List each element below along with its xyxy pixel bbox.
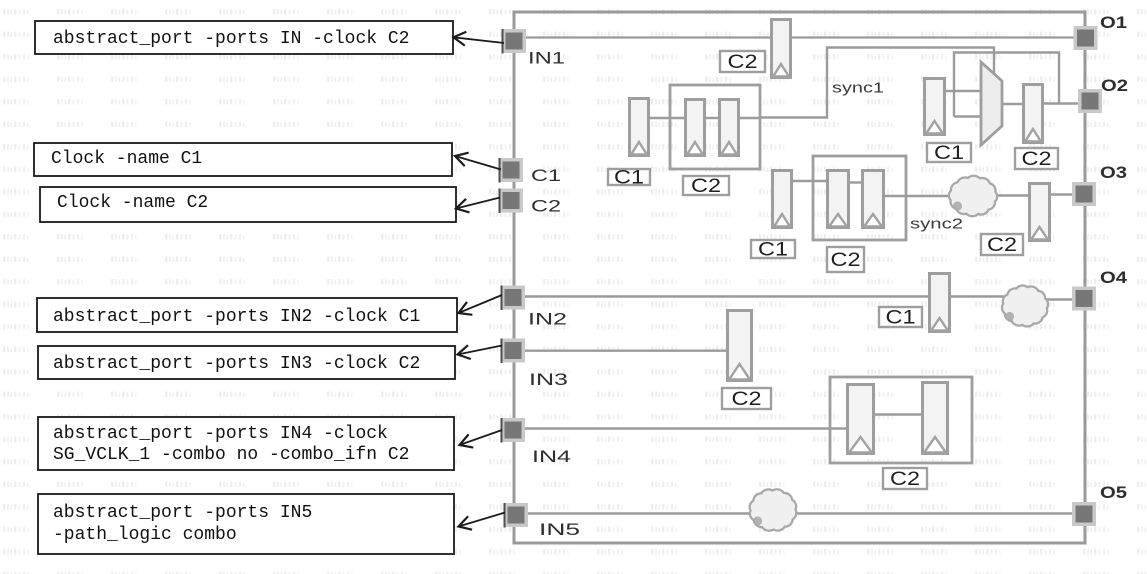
arrow to annotation box 5 <box>458 345 503 359</box>
annotation box 7: abstract_port IN5 <box>38 494 454 554</box>
wire FF C2 to port O3 <box>1051 193 1076 195</box>
svg-text:O3: O3 <box>1100 164 1127 182</box>
svg-text:O1: O1 <box>1100 14 1127 32</box>
svg-text:C1: C1 <box>531 166 561 185</box>
arrow to annotation box 2 <box>455 153 501 170</box>
svg-text:abstract_port -ports IN4 -cloc: abstract_port -ports IN4 -clock <box>53 424 388 444</box>
IN4 double flip-flop group box <box>830 377 972 463</box>
svg-text:IN1: IN1 <box>528 49 565 68</box>
svg-text:C2: C2 <box>1022 149 1052 170</box>
clock domain label C1 (IN2 FF) <box>879 307 922 329</box>
svg-text:IN4: IN4 <box>532 447 571 466</box>
clock domain label C2 (top FF) <box>720 51 765 73</box>
svg-text:O5: O5 <box>1100 484 1127 502</box>
port IN3 <box>501 339 526 364</box>
annotation box 1: abstract_port IN <box>35 21 453 54</box>
annotation box 2: Clock C1 <box>34 143 452 176</box>
port C2 <box>499 189 524 214</box>
port IN5 <box>504 503 529 528</box>
port O5 <box>1072 502 1096 526</box>
top-level block outline <box>514 12 1085 543</box>
svg-text:C2: C2 <box>691 176 721 197</box>
clock domain label C1 (mux input FF) <box>927 143 971 164</box>
wire mux output to FF C2 <box>1002 103 1022 105</box>
wire between sync2 flip-flops <box>850 181 861 183</box>
port O1 <box>1074 26 1098 50</box>
clock domain label C2 (mux output FF) <box>1015 148 1058 170</box>
IN4 box flip-flop 1 <box>848 385 874 454</box>
svg-text:Clock -name C2: Clock -name C2 <box>57 193 208 213</box>
svg-text:C1: C1 <box>758 240 788 261</box>
port IN4 <box>501 418 526 443</box>
annotation box 6: abstract_port IN4 <box>38 417 454 470</box>
wire sync1 output to mux top input <box>760 48 994 118</box>
svg-text:C2: C2 <box>987 235 1017 256</box>
clock domain label C2 (O3 FF) <box>981 234 1023 256</box>
svg-text:C1: C1 <box>886 308 916 329</box>
wire FF C2 to port O2 <box>1044 102 1080 104</box>
flip-flop C2 before O3 <box>1030 184 1050 241</box>
svg-text:abstract_port -ports IN5: abstract_port -ports IN5 <box>53 503 312 523</box>
annotation box 3: Clock C2 <box>40 187 456 222</box>
wire IN1 to O1 <box>526 36 1076 38</box>
sync1 flip-flop 1 <box>686 100 705 156</box>
svg-text:abstract_port -ports IN3 -cloc: abstract_port -ports IN3 -clock C2 <box>53 354 420 374</box>
wire IN3 to FF C2 <box>525 350 727 352</box>
wire between IN4 box flip-flops <box>875 413 921 415</box>
cloud combinational logic on sync2-O3 row <box>949 176 997 216</box>
svg-text:abstract_port -ports IN -clock: abstract_port -ports IN -clock C2 <box>53 29 409 49</box>
arrow to annotation box 3 <box>456 198 500 213</box>
port IN2 <box>501 286 526 311</box>
annotation box 4: abstract_port IN2 <box>37 298 457 332</box>
wire cloud to port O4 <box>1043 298 1076 300</box>
port IN1 <box>502 29 527 54</box>
sync1 group box <box>670 85 760 169</box>
svg-text:SG_VCLK_1 -combo no -combo_ifn: SG_VCLK_1 -combo no -combo_ifn C2 <box>53 445 409 465</box>
svg-text:C2: C2 <box>531 197 561 216</box>
wire mux feedback loop <box>954 53 1059 117</box>
svg-text:Clock -name C1: Clock -name C1 <box>51 149 202 169</box>
flip-flop C1 feeding sync2 <box>773 171 792 228</box>
arrow to annotation box 6 <box>460 430 503 448</box>
sync2 group box <box>813 156 906 240</box>
wire IN4 to double flip-flop box <box>525 427 847 429</box>
svg-text:C1: C1 <box>614 168 644 189</box>
svg-text:C2: C2 <box>728 52 758 73</box>
svg-text:IN2: IN2 <box>528 310 567 329</box>
svg-text:abstract_port -ports IN2 -cloc: abstract_port -ports IN2 -clock C1 <box>53 307 420 327</box>
clock domain label C2 (sync1 box) <box>683 176 729 197</box>
cloud combinational logic on IN5-O5 row <box>750 489 797 530</box>
arrow to annotation box 1 <box>454 32 505 46</box>
svg-text:IN5: IN5 <box>539 520 580 539</box>
svg-text:O4: O4 <box>1100 269 1128 287</box>
arrow to annotation box 4 <box>459 295 503 315</box>
clock domain label C1 (sync1 input FF) <box>608 168 650 189</box>
mux <box>981 62 1002 145</box>
svg-text:-path_logic combo: -path_logic combo <box>53 525 237 545</box>
port O4 <box>1072 287 1096 311</box>
wire feedback to mux input 2 <box>954 115 981 117</box>
svg-text:C2: C2 <box>831 250 861 271</box>
svg-text:sync1: sync1 <box>832 80 884 97</box>
port O3 <box>1072 182 1096 206</box>
wire cloud to port O5 <box>791 512 1076 514</box>
flip-flop C1 feeding mux <box>925 79 945 135</box>
wire between sync1 flip-flops <box>706 117 718 119</box>
port O2 <box>1078 89 1102 113</box>
flip-flop C2 on IN1-O1 wire <box>772 20 791 78</box>
clock domain label C2 (IN4 box) <box>883 468 927 490</box>
wire cloud to FF C2 on O3 row <box>995 194 1028 196</box>
cloud combinational logic on IN2-O4 row <box>1002 286 1048 327</box>
flip-flop C2 after mux <box>1024 85 1043 143</box>
flip-flop C2 on IN3 row <box>728 311 752 381</box>
wire IN2 to FF C1 <box>525 295 928 297</box>
svg-text:IN3: IN3 <box>529 370 568 389</box>
annotation box 5: abstract_port IN3 <box>38 346 455 379</box>
svg-text:C1: C1 <box>934 143 964 164</box>
flip-flop C1 on IN2 row <box>930 274 950 332</box>
clock domain label C2 (IN3 FF) <box>722 388 771 410</box>
svg-text:sync2: sync2 <box>910 216 963 233</box>
wire FF C1 to sync1 box <box>650 117 684 119</box>
flip-flop C1 feeding sync1 <box>630 99 649 156</box>
svg-text:O2: O2 <box>1101 77 1128 95</box>
wire mux FF C1 to mux input 1 <box>946 90 981 92</box>
IN4 box flip-flop 2 <box>923 383 948 454</box>
sync2 flip-flop 2 <box>863 171 884 228</box>
wire FF C1 to cloud on O4 row <box>951 295 1008 297</box>
wire sync1 FF2 to box edge <box>740 117 760 119</box>
svg-text:C2: C2 <box>890 469 920 490</box>
wire sync2 box to cloud <box>885 195 951 197</box>
svg-text:C2: C2 <box>732 389 762 410</box>
clock domain label C2 (sync2 box) <box>827 247 864 272</box>
arrow to annotation box 7 <box>459 513 506 530</box>
sync1 flip-flop 2 <box>720 100 739 156</box>
clock domain label C1 (sync2 input FF) <box>751 240 795 261</box>
wire sync2 FF C1 to sync2 box <box>793 180 826 182</box>
sync2 flip-flop 1 <box>828 171 849 228</box>
wire IN5 to cloud <box>528 512 755 514</box>
port C1 <box>499 158 524 183</box>
